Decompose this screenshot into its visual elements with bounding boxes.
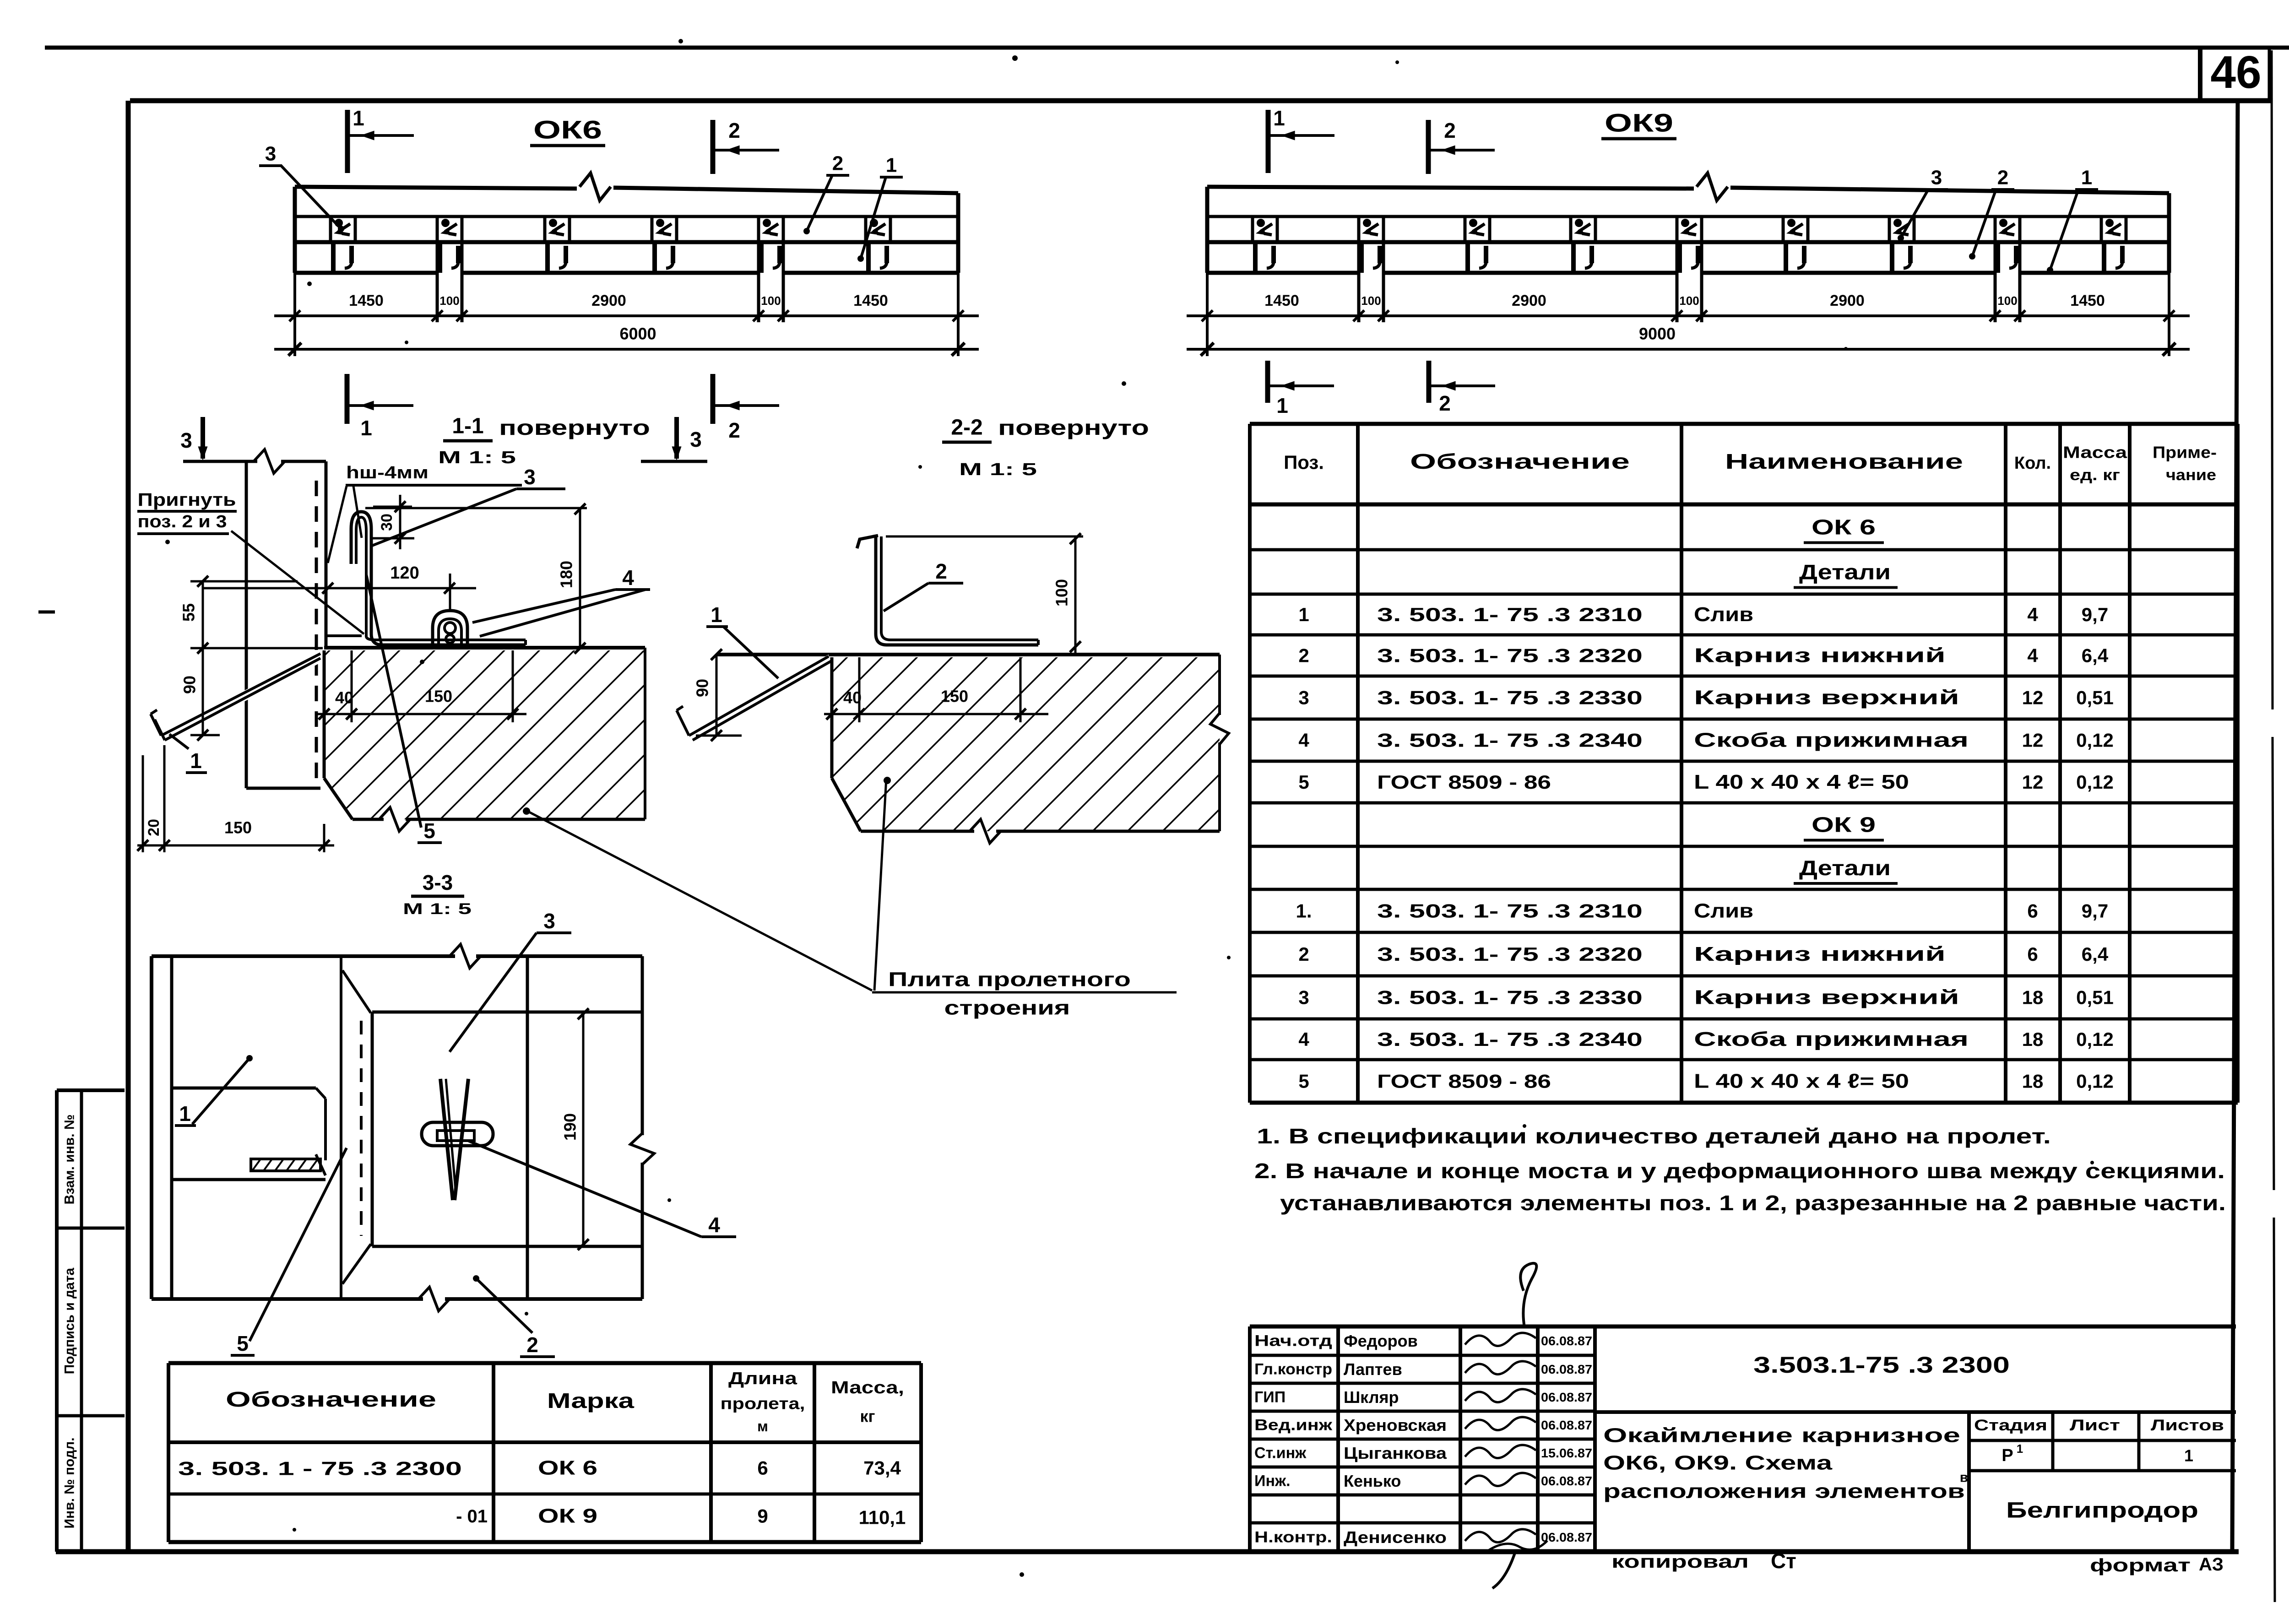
svg-text:18: 18 xyxy=(2022,1029,2044,1050)
svg-text:Слив: Слив xyxy=(1694,603,1753,626)
svg-text:Детали: Детали xyxy=(1799,856,1891,880)
svg-text:2. В начале и конце моста и: 2. В начале и конце моста и у деформацио… xyxy=(1254,1159,2225,1183)
svg-text:4: 4 xyxy=(1298,730,1309,751)
svg-text:120: 120 xyxy=(390,563,419,583)
svg-text:- 01: - 01 xyxy=(456,1506,488,1527)
svg-text:ОК 9: ОК 9 xyxy=(1812,813,1876,837)
svg-text:150: 150 xyxy=(941,687,968,706)
svg-text:6000: 6000 xyxy=(619,325,656,343)
svg-text:Обозначение: Обозначение xyxy=(226,1387,436,1411)
svg-text:ОК 6: ОК 6 xyxy=(1812,515,1876,539)
svg-text:30: 30 xyxy=(378,514,396,531)
svg-text:3. 503. 1- 75 .3 2310: 3. 503. 1- 75 .3 2310 xyxy=(1377,900,1643,922)
svg-text:4: 4 xyxy=(2027,645,2038,666)
svg-text:1.: 1. xyxy=(1296,900,1312,922)
svg-text:06.08.87: 06.08.87 xyxy=(1541,1418,1592,1432)
svg-text:Поз.: Поз. xyxy=(1284,452,1324,473)
svg-text:поз. 2 и 3: поз. 2 и 3 xyxy=(138,512,227,531)
svg-text:3: 3 xyxy=(1298,687,1309,709)
svg-text:3-3: 3-3 xyxy=(423,871,453,894)
svg-text:Нач.отд: Нач.отд xyxy=(1254,1332,1332,1350)
svg-text:5: 5 xyxy=(237,1332,249,1355)
svg-text:Масса: Масса xyxy=(2063,443,2127,462)
svg-text:1: 1 xyxy=(2184,1446,2193,1465)
svg-text:06.08.87: 06.08.87 xyxy=(1541,1362,1592,1376)
svg-text:Скоба прижимная: Скоба прижимная xyxy=(1694,1028,1969,1050)
svg-text:Плита пролетного: Плита пролетного xyxy=(888,969,1131,991)
svg-text:90: 90 xyxy=(693,679,712,697)
svg-text:100: 100 xyxy=(761,294,781,308)
svg-text:пролета,: пролета, xyxy=(721,1394,805,1413)
svg-text:0,12: 0,12 xyxy=(2076,771,2114,793)
svg-text:3. 503. 1- 75 .3 2340: 3. 503. 1- 75 .3 2340 xyxy=(1377,1029,1643,1050)
svg-text:3. 503. 1- 75 .3 2310: 3. 503. 1- 75 .3 2310 xyxy=(1377,604,1643,625)
svg-text:Лист: Лист xyxy=(2070,1417,2120,1434)
svg-text:Денисенко: Денисенко xyxy=(1344,1528,1447,1547)
svg-text:46: 46 xyxy=(2210,47,2261,98)
svg-text:Кенько: Кенько xyxy=(1344,1472,1401,1490)
svg-text:ГОСТ 8509 - 86: ГОСТ 8509 - 86 xyxy=(1377,1071,1551,1092)
svg-text:2: 2 xyxy=(1298,645,1309,666)
svg-text:Слив: Слив xyxy=(1694,900,1753,922)
svg-text:2900: 2900 xyxy=(591,292,626,309)
svg-text:6,4: 6,4 xyxy=(2082,645,2109,666)
svg-text:1450: 1450 xyxy=(853,292,888,309)
svg-text:3: 3 xyxy=(1298,987,1309,1008)
svg-text:Длина: Длина xyxy=(728,1369,797,1388)
svg-text:3. 503. 1- 75 .3 2320: 3. 503. 1- 75 .3 2320 xyxy=(1377,943,1643,965)
svg-text:0,12: 0,12 xyxy=(2076,730,2114,751)
svg-text:3. 503. 1- 75 .3 2330: 3. 503. 1- 75 .3 2330 xyxy=(1377,987,1643,1008)
svg-text:06.08.87: 06.08.87 xyxy=(1541,1334,1592,1348)
svg-text:40: 40 xyxy=(335,688,353,707)
svg-text:100: 100 xyxy=(1679,294,1699,308)
svg-text:ГИП: ГИП xyxy=(1254,1389,1286,1406)
svg-text:0,12: 0,12 xyxy=(2076,1029,2114,1050)
svg-text:Инв. № подл.: Инв. № подл. xyxy=(62,1437,77,1528)
svg-text:Н.контр.: Н.контр. xyxy=(1254,1529,1332,1546)
svg-text:АЗ: АЗ xyxy=(2199,1554,2224,1575)
svg-text:чание: чание xyxy=(2166,466,2216,484)
svg-text:3: 3 xyxy=(180,428,192,452)
svg-text:4: 4 xyxy=(2027,604,2038,625)
svg-text:копировал: копировал xyxy=(1611,1552,1749,1572)
svg-text:1: 1 xyxy=(360,416,372,440)
svg-text:Подпись и дата: Подпись и дата xyxy=(62,1267,77,1374)
svg-text:6,4: 6,4 xyxy=(2082,943,2109,965)
svg-text:12: 12 xyxy=(2022,730,2044,751)
svg-text:расположения элементов: расположения элементов xyxy=(1603,1480,1965,1503)
svg-text:строения: строения xyxy=(944,997,1070,1019)
svg-text:Ст: Ст xyxy=(1771,1549,1796,1573)
svg-text:0,51: 0,51 xyxy=(2076,687,2114,709)
svg-text:1: 1 xyxy=(2017,1442,2023,1456)
svg-text:3. 503. 1- 75 .3 2340: 3. 503. 1- 75 .3 2340 xyxy=(1377,730,1643,751)
svg-text:L 40 x 40 x 4 ℓ= 50: L 40 x 40 x 4 ℓ= 50 xyxy=(1694,771,1909,793)
svg-text:Марка: Марка xyxy=(547,1389,635,1413)
svg-text:73,4: 73,4 xyxy=(863,1457,901,1479)
svg-text:М 1: 5: М 1: 5 xyxy=(959,460,1037,479)
svg-text:3. 503. 1 - 75 .3 2300: 3. 503. 1 - 75 .3 2300 xyxy=(178,1458,462,1479)
svg-text:3: 3 xyxy=(265,143,276,165)
svg-text:1450: 1450 xyxy=(2070,292,2105,309)
svg-text:2: 2 xyxy=(1298,943,1309,965)
svg-text:1: 1 xyxy=(190,749,202,773)
svg-text:Пригнуть: Пригнуть xyxy=(138,490,236,510)
svg-text:190: 190 xyxy=(561,1113,580,1141)
svg-text:06.08.87: 06.08.87 xyxy=(1541,1390,1592,1404)
svg-text:3: 3 xyxy=(1931,167,1942,189)
svg-text:180: 180 xyxy=(557,561,576,588)
svg-text:12: 12 xyxy=(2022,771,2044,793)
svg-text:2: 2 xyxy=(728,119,740,142)
svg-text:3: 3 xyxy=(690,428,702,451)
svg-text:5: 5 xyxy=(423,819,435,843)
svg-text:110,1: 110,1 xyxy=(859,1507,906,1528)
svg-text:ед. кг: ед. кг xyxy=(2070,466,2120,484)
svg-text:9,7: 9,7 xyxy=(2082,604,2108,625)
svg-text:Вед.инж: Вед.инж xyxy=(1254,1417,1333,1434)
svg-text:1450: 1450 xyxy=(1264,292,1299,309)
svg-text:06.08.87: 06.08.87 xyxy=(1541,1530,1592,1544)
svg-text:55: 55 xyxy=(179,603,198,622)
svg-text:Окаймление карнизное: Окаймление карнизное xyxy=(1603,1424,1960,1447)
svg-text:2: 2 xyxy=(832,152,843,175)
svg-text:Обозначение: Обозначение xyxy=(1410,449,1630,473)
svg-text:6: 6 xyxy=(757,1457,768,1479)
svg-text:Карниз нижний: Карниз нижний xyxy=(1694,943,1946,965)
svg-text:6: 6 xyxy=(2027,943,2038,965)
svg-text:Наименование: Наименование xyxy=(1725,449,1963,473)
svg-text:150: 150 xyxy=(224,818,252,837)
svg-text:9: 9 xyxy=(757,1505,768,1527)
svg-text:Шкляр: Шкляр xyxy=(1344,1388,1399,1407)
svg-text:Взам. инв. №: Взам. инв. № xyxy=(62,1115,77,1205)
svg-text:100: 100 xyxy=(1997,294,2017,308)
svg-text:Цыганкова: Цыганкова xyxy=(1344,1444,1447,1462)
svg-text:1: 1 xyxy=(1276,394,1288,417)
svg-text:0,51: 0,51 xyxy=(2076,987,2114,1008)
svg-text:100: 100 xyxy=(439,294,459,308)
svg-text:5: 5 xyxy=(1298,771,1309,793)
svg-text:hш-4мм: hш-4мм xyxy=(346,463,429,482)
svg-text:Масса,: Масса, xyxy=(831,1378,904,1397)
svg-text:ОК 9: ОК 9 xyxy=(538,1505,597,1527)
svg-text:ОК6, ОК9. Схема: ОК6, ОК9. Схема xyxy=(1603,1452,1833,1474)
svg-text:4: 4 xyxy=(1298,1029,1309,1050)
svg-text:2: 2 xyxy=(935,559,947,583)
svg-text:100: 100 xyxy=(1052,579,1071,606)
svg-text:Гл.констр: Гл.констр xyxy=(1254,1361,1332,1378)
svg-text:1-1: 1-1 xyxy=(452,414,483,438)
svg-text:1: 1 xyxy=(1298,604,1309,625)
svg-text:6: 6 xyxy=(2027,900,2038,922)
svg-text:1: 1 xyxy=(886,154,897,177)
svg-text:2900: 2900 xyxy=(1512,292,1546,309)
svg-text:Карниз верхний: Карниз верхний xyxy=(1694,986,1959,1009)
svg-text:М 1: 5: М 1: 5 xyxy=(403,900,472,918)
svg-text:ОК 6: ОК 6 xyxy=(538,1457,597,1479)
svg-text:в: в xyxy=(1960,1470,1968,1485)
svg-text:20: 20 xyxy=(145,819,163,836)
svg-text:150: 150 xyxy=(425,687,452,706)
svg-text:повернуто: повернуто xyxy=(998,416,1149,439)
svg-text:Листов: Листов xyxy=(2151,1417,2224,1434)
svg-text:2-2: 2-2 xyxy=(951,416,982,440)
svg-text:1: 1 xyxy=(1273,106,1285,130)
svg-text:18: 18 xyxy=(2022,1071,2044,1092)
svg-text:2: 2 xyxy=(1444,119,1456,142)
svg-text:18: 18 xyxy=(2022,987,2044,1008)
svg-text:2: 2 xyxy=(1439,391,1451,415)
svg-text:1: 1 xyxy=(711,603,722,627)
svg-text:Стадия: Стадия xyxy=(1974,1417,2047,1434)
svg-text:Детали: Детали xyxy=(1799,560,1891,584)
svg-text:Скоба прижимная: Скоба прижимная xyxy=(1694,729,1969,752)
svg-text:Белгипродор: Белгипродор xyxy=(2006,1499,2198,1523)
svg-text:90: 90 xyxy=(180,676,199,694)
svg-text:100: 100 xyxy=(1361,294,1381,308)
svg-text:2: 2 xyxy=(526,1333,538,1357)
svg-text:2: 2 xyxy=(728,418,740,442)
svg-text:Р: Р xyxy=(2002,1446,2013,1465)
svg-text:4: 4 xyxy=(622,566,634,590)
svg-text:Лаптев: Лаптев xyxy=(1344,1360,1402,1379)
svg-text:1. В спецификации количество: 1. В спецификации количество деталей дан… xyxy=(1257,1124,2051,1148)
svg-text:Ст.инж: Ст.инж xyxy=(1254,1445,1307,1462)
svg-text:м: м xyxy=(757,1418,768,1435)
svg-text:Карниз нижний: Карниз нижний xyxy=(1694,644,1946,667)
svg-text:Инж.: Инж. xyxy=(1254,1472,1291,1490)
svg-text:Карниз верхний: Карниз верхний xyxy=(1694,687,1959,709)
svg-text:Приме-: Приме- xyxy=(2153,443,2217,462)
svg-text:устанавливаются элементы поз: устанавливаются элементы поз. 1 и 2, раз… xyxy=(1280,1191,2226,1215)
svg-text:2: 2 xyxy=(1997,167,2008,189)
svg-text:1450: 1450 xyxy=(349,292,384,309)
svg-text:повернуто: повернуто xyxy=(499,416,650,439)
svg-text:5: 5 xyxy=(1298,1071,1309,1092)
svg-text:ГОСТ 8509 - 86: ГОСТ 8509 - 86 xyxy=(1377,771,1551,793)
svg-text:М 1: 5: М 1: 5 xyxy=(438,448,516,467)
svg-text:3: 3 xyxy=(524,465,536,489)
svg-text:формат: формат xyxy=(2090,1555,2191,1575)
svg-text:Хреновская: Хреновская xyxy=(1344,1416,1447,1435)
svg-text:3.503.1-75 .3 2300: 3.503.1-75 .3 2300 xyxy=(1753,1352,2010,1378)
svg-text:06.08.87: 06.08.87 xyxy=(1541,1474,1592,1488)
svg-text:1: 1 xyxy=(2081,167,2092,189)
svg-text:3: 3 xyxy=(543,909,555,933)
svg-text:1: 1 xyxy=(179,1102,191,1126)
svg-text:40: 40 xyxy=(843,688,862,707)
svg-text:9,7: 9,7 xyxy=(2082,900,2108,922)
svg-text:2900: 2900 xyxy=(1830,292,1865,309)
svg-text:Кол.: Кол. xyxy=(2014,454,2051,473)
svg-text:1: 1 xyxy=(353,106,364,130)
svg-text:12: 12 xyxy=(2022,687,2044,709)
svg-text:3. 503. 1- 75 .3 2330: 3. 503. 1- 75 .3 2330 xyxy=(1377,687,1643,709)
svg-text:Федоров: Федоров xyxy=(1344,1332,1418,1350)
svg-text:ОК9: ОК9 xyxy=(1605,108,1673,137)
svg-text:3. 503. 1- 75 .3 2320: 3. 503. 1- 75 .3 2320 xyxy=(1377,645,1643,666)
svg-text:кг: кг xyxy=(860,1407,875,1426)
svg-text:L 40 x 40 x 4 ℓ= 50: L 40 x 40 x 4 ℓ= 50 xyxy=(1694,1070,1909,1093)
svg-text:4: 4 xyxy=(708,1213,720,1237)
svg-text:15.06.87: 15.06.87 xyxy=(1541,1446,1592,1460)
svg-text:9000: 9000 xyxy=(1639,325,1676,343)
svg-text:0,12: 0,12 xyxy=(2076,1071,2114,1092)
svg-text:ОК6: ОК6 xyxy=(533,115,602,144)
